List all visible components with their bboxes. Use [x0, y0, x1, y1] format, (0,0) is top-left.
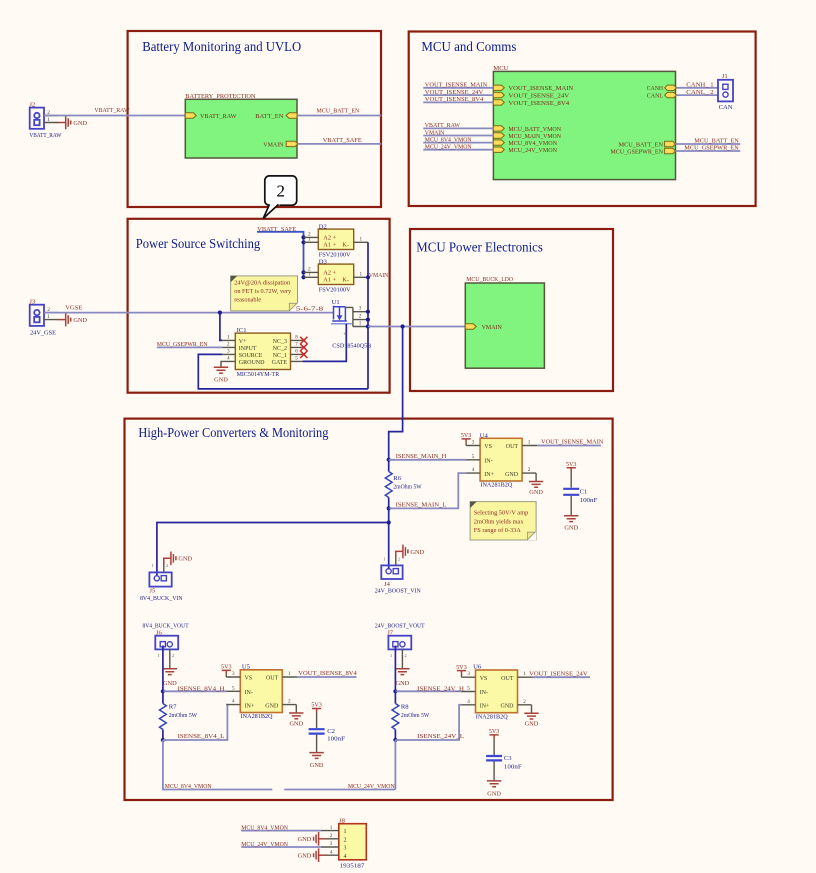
wire IC1 SOURCE loop: [198, 354, 368, 389]
svg-text:ISENSE_24V_H: ISENSE_24V_H: [417, 685, 464, 692]
svg-text:MCU Power Electronics: MCU Power Electronics: [416, 240, 543, 255]
svg-text:U6: U6: [473, 664, 482, 671]
svg-text:MCU_BATT_EN: MCU_BATT_EN: [619, 141, 664, 148]
svg-text:VBATT_SAFE: VBATT_SAFE: [323, 137, 362, 144]
svg-text:2: 2: [227, 342, 230, 348]
svg-text:1935187: 1935187: [340, 863, 366, 870]
wire VMAIN to MCU Power Electronics: [368, 326, 465, 328]
sheet entry MCU_MAIN_VMON: [493, 133, 561, 140]
resistor R8 2mOhm 5W: [392, 691, 430, 740]
svg-text:24V_BOOST_VIN: 24V_BOOST_VIN: [375, 588, 421, 595]
sheet entry MCU_BATT_VMON: [493, 126, 561, 133]
wire CANL_2: [676, 89, 718, 96]
region box Battery Monitoring and UVLO: [128, 31, 381, 207]
svg-text:VBATT_RAW: VBATT_RAW: [200, 113, 237, 120]
svg-text:3: 3: [359, 306, 362, 312]
svg-text:5V3: 5V3: [566, 461, 577, 468]
svg-text:GATE: GATE: [272, 360, 288, 366]
node junctions on VBATT_SAFE vertical: [301, 235, 305, 279]
resistor R7 2mOhm 5W: [160, 691, 198, 740]
wire MCU_8V4_VMON to MCU: [423, 136, 493, 143]
svg-text:4: 4: [330, 849, 333, 855]
connector J6 8V4_BUCK_VOUT: [143, 623, 189, 650]
ground GND at J8 pin4: [298, 848, 326, 862]
svg-text:NC_2: NC_2: [273, 346, 287, 352]
svg-text:5: 5: [295, 356, 298, 362]
svg-text:NC_1: NC_1: [273, 353, 287, 359]
resistor R6 2mOhm 5W: [385, 467, 422, 509]
svg-text:MCU_8V4_VMON: MCU_8V4_VMON: [241, 825, 288, 832]
svg-text:2mOhm 5W: 2mOhm 5W: [393, 483, 422, 490]
svg-text:FS range of 0-33A: FS range of 0-33A: [474, 527, 521, 534]
wire rail down to J4 and branch J5: [157, 508, 391, 576]
wire ISENSE_8V4_H to U5 IN-: [163, 685, 226, 692]
wire VMAIN to MCU: [423, 129, 493, 136]
svg-text:CANL: CANL: [647, 93, 663, 100]
svg-text:2mOhm 5W: 2mOhm 5W: [401, 712, 430, 719]
svg-text:GND: GND: [396, 680, 410, 687]
wire VOUT_ISENSE_MAIN: [423, 82, 493, 89]
svg-text:4: 4: [344, 854, 347, 860]
svg-text:MIC5014YM-TR: MIC5014YM-TR: [237, 371, 280, 378]
node junction ISENSE_24V_H: [393, 689, 397, 693]
sheet entry VOUT_ISENSE_MAIN: [493, 85, 573, 92]
capacitor C2 100nF: [309, 702, 346, 769]
svg-text:1: 1: [152, 563, 154, 568]
wire MCU_24V_VMON to J8: [241, 841, 321, 848]
wire VGSE J3 to MOSFET: [44, 305, 334, 313]
ground GND at J3 pin1: [58, 313, 88, 327]
wire MCU_24V_VMON: [284, 740, 395, 790]
capacitor C1 100nF: [563, 461, 598, 531]
svg-text:GND: GND: [214, 376, 228, 383]
wire IC1 V+ feed: [220, 313, 222, 341]
sheet entry VMAIN buck: [465, 324, 502, 331]
svg-text:7: 7: [295, 342, 298, 348]
connector J4 24V_BOOST_VIN: [375, 565, 421, 594]
svg-text:GND: GND: [487, 790, 501, 797]
svg-text:2: 2: [405, 653, 407, 658]
svg-text:BATT_EN: BATT_EN: [255, 113, 284, 120]
svg-text:C2: C2: [327, 728, 335, 735]
ground GND at J5 pin2: [164, 552, 193, 573]
connector J8 1935187: [321, 818, 366, 870]
region box High-Power Converters and Monitoring: [125, 419, 613, 800]
svg-text:MCU_GSEPWR_EN: MCU_GSEPWR_EN: [157, 341, 208, 348]
connector J2: [29, 101, 62, 139]
svg-text:MCU_BATT_VMON: MCU_BATT_VMON: [508, 126, 561, 133]
svg-text:MCU_8V4_VMON: MCU_8V4_VMON: [425, 136, 472, 143]
svg-text:8: 8: [295, 335, 298, 341]
wire IC1 GATE to MOSFET gate: [303, 324, 347, 362]
wire VOUT_ISENSE_8V4: [297, 670, 357, 677]
svg-text:2: 2: [172, 653, 174, 658]
pin numbers J5: [152, 563, 169, 568]
svg-text:GND: GND: [310, 762, 324, 769]
wire ISENSE_24V_H to U6 IN-: [395, 685, 464, 692]
wire VBATT_RAW to MCU: [423, 122, 493, 129]
wire ISENSE_MAIN_H to U4 IN-: [389, 453, 466, 460]
sheet entry VOUT_ISENSE_8V4: [493, 100, 570, 107]
svg-text:VMAIN: VMAIN: [482, 324, 502, 331]
wire MCU_BATT_EN: [297, 107, 381, 115]
svg-text:MCU_BUCK_LDO: MCU_BUCK_LDO: [466, 276, 513, 283]
wire J7 pin1 to ISENSE_24V_H: [394, 646, 396, 692]
op-amp U6 INA281B2Q: [456, 664, 539, 728]
connector J1 CAN: [718, 73, 733, 111]
sheet entry VMAIN: [263, 141, 298, 148]
svg-text:1: 1: [227, 335, 230, 341]
svg-text:R8: R8: [401, 704, 409, 711]
wire CANH_1: [676, 82, 718, 89]
svg-text:C3: C3: [504, 755, 512, 762]
wire diode cathodes to VMAIN rail: [366, 242, 389, 389]
node junction ISENSE_8V4_L: [161, 738, 165, 742]
diode D3 FSV20100V: [304, 258, 369, 293]
sheet symbol BATTERY_PROTECTION: [185, 93, 297, 158]
svg-text:BATTERY_PROTECTION: BATTERY_PROTECTION: [185, 93, 255, 100]
svg-text:D3: D3: [319, 258, 328, 265]
sheet entry VBATT_RAW: [185, 113, 237, 120]
svg-text:NC_3: NC_3: [273, 339, 287, 345]
wire ISENSE_24V_L to U6 IN+: [395, 705, 464, 740]
svg-text:R7: R7: [169, 704, 177, 711]
svg-text:MCU_BATT_EN: MCU_BATT_EN: [317, 107, 360, 114]
svg-text:VOUT_ISENSE_8V4: VOUT_ISENSE_8V4: [508, 100, 570, 107]
wire MCU_GSEPWR_EN to IC1 INPUT: [157, 341, 223, 348]
pin numbers J6: [158, 653, 175, 658]
note 24V dissipation: [231, 276, 298, 312]
svg-text:MCU_8V4_VMON: MCU_8V4_VMON: [508, 140, 557, 147]
svg-text:Battery Monitoring and UVLO: Battery Monitoring and UVLO: [142, 39, 301, 54]
wire ISENSE_MAIN_L to U4 IN+: [389, 473, 466, 508]
node junction VMAIN branch down: [401, 324, 405, 328]
svg-text:VOUT_ISENSE_24V: VOUT_ISENSE_24V: [529, 670, 588, 677]
sheet symbol MCU_BUCK_LDO: [465, 276, 544, 368]
node junctions MOSFET source rail: [366, 310, 370, 329]
svg-text:VBATT_SAFE: VBATT_SAFE: [257, 226, 296, 233]
svg-text:VOUT_ISENSE_24V: VOUT_ISENSE_24V: [425, 89, 484, 96]
node junction ISENSE_MAIN_H: [387, 458, 391, 462]
svg-text:GND: GND: [73, 317, 87, 324]
svg-text:2: 2: [344, 837, 347, 843]
svg-text:24V_BOOST_VOUT: 24V_BOOST_VOUT: [375, 623, 425, 630]
svg-text:8V4_BUCK_VIN: 8V4_BUCK_VIN: [140, 595, 183, 602]
svg-text:GND: GND: [163, 680, 177, 687]
svg-text:VOUT_ISENSE_MAIN: VOUT_ISENSE_MAIN: [508, 85, 573, 92]
svg-text:J2: J2: [29, 101, 35, 108]
ic U1 driver IC1 MIC5014YM-TR: [222, 327, 302, 378]
wire VBATT_SAFE from VMAIN: [298, 137, 382, 144]
svg-text:2: 2: [277, 182, 286, 201]
wire MCU_8V4_VMON to J8: [241, 825, 321, 832]
no-connect X pin8: [300, 337, 307, 344]
sheet entry CANH: [647, 85, 677, 92]
svg-text:24V@20A dissipation: 24V@20A dissipation: [234, 280, 291, 287]
svg-text:MCU_24V_VMON: MCU_24V_VMON: [241, 841, 288, 848]
svg-text:ISENSE_MAIN_L: ISENSE_MAIN_L: [396, 501, 447, 508]
sheet entry VOUT_ISENSE_24V: [493, 92, 569, 99]
svg-text:MCU_MAIN_VMON: MCU_MAIN_VMON: [508, 133, 561, 140]
wire ISENSE_8V4_L to U5 IN+: [163, 705, 228, 741]
wire VOUT_ISENSE_24V: [423, 89, 493, 96]
svg-text:1: 1: [359, 320, 362, 326]
wire VBATT_RAW J2 to battery sheet: [44, 107, 185, 116]
svg-text:1: 1: [390, 653, 392, 658]
svg-text:GND: GND: [73, 120, 87, 127]
connector J3: [29, 298, 58, 336]
note selecting 50V/V amp: [470, 502, 536, 541]
svg-text:MCU_8V4_VMON: MCU_8V4_VMON: [165, 783, 212, 790]
svg-text:ISENSE_MAIN_H: ISENSE_MAIN_H: [396, 453, 447, 460]
svg-text:MCU_BATT_EN: MCU_BATT_EN: [694, 138, 739, 145]
sheet entry BATT_EN: [255, 113, 297, 120]
svg-text:1: 1: [344, 829, 347, 835]
svg-text:J3: J3: [29, 298, 36, 305]
svg-text:CAN: CAN: [719, 104, 733, 111]
svg-text:VOUT_ISENSE_MAIN: VOUT_ISENSE_MAIN: [541, 439, 604, 446]
svg-text:1: 1: [384, 557, 386, 562]
svg-text:5-6-7-8: 5-6-7-8: [296, 306, 324, 313]
pin numbers J7: [390, 653, 407, 658]
svg-text:J8: J8: [339, 818, 346, 825]
svg-text:2: 2: [359, 314, 362, 320]
sheet entry MCU_24V_VMON: [493, 147, 557, 154]
svg-text:VOUT_ISENSE_8V4: VOUT_ISENSE_8V4: [425, 96, 484, 103]
no-connect X pin6: [300, 351, 307, 358]
connector J7 24V_BOOST_VOUT: [375, 623, 425, 650]
svg-text:Selecting 50V/V amp: Selecting 50V/V amp: [474, 510, 528, 517]
node junction ISENSE_8V4_H: [161, 689, 165, 693]
svg-text:FSV20100V: FSV20100V: [319, 286, 351, 293]
wire VMAIN down to converters: [389, 327, 403, 467]
ground GND at IC1 pin4: [214, 361, 228, 383]
wire MCU_24V_VMON to MCU: [423, 144, 493, 151]
svg-text:VMAIN: VMAIN: [263, 141, 283, 148]
svg-text:High-Power Converters & Monito: High-Power Converters & Monitoring: [138, 425, 328, 440]
svg-text:Power Source Switching: Power Source Switching: [136, 236, 261, 251]
svg-text:MCU and Comms: MCU and Comms: [421, 39, 516, 54]
svg-text:VOUT_ISENSE_8V4: VOUT_ISENSE_8V4: [298, 670, 357, 677]
svg-text:VBATT_RAW: VBATT_RAW: [425, 122, 461, 129]
ground GND at J7 pin2: [395, 649, 409, 687]
svg-text:3: 3: [344, 846, 347, 852]
svg-text:MCU_GSEPWR_EN: MCU_GSEPWR_EN: [610, 148, 663, 155]
wire VOUT_ISENSE_MAIN: [537, 439, 604, 446]
ground GND at J8 pin2: [298, 832, 326, 846]
callout balloon 2: [263, 176, 296, 219]
svg-text:4: 4: [227, 356, 230, 362]
svg-text:CSD18540Q5B: CSD18540Q5B: [332, 343, 372, 350]
svg-text:GROUND: GROUND: [239, 360, 265, 366]
svg-text:100nF: 100nF: [327, 736, 345, 743]
svg-text:2: 2: [330, 833, 333, 839]
region box Power Source Switching: [128, 219, 390, 393]
svg-text:VOUT_ISENSE_MAIN: VOUT_ISENSE_MAIN: [425, 82, 488, 89]
svg-text:GND: GND: [564, 524, 578, 531]
svg-text:J1: J1: [722, 73, 728, 80]
wire J6 pin1 to ISENSE_8V4_H: [162, 646, 164, 692]
transistor U1 CSD18540Q5B: [296, 299, 372, 350]
svg-text:VMAIN: VMAIN: [369, 272, 389, 279]
sheet entry MCU_GSEPWR_EN out: [610, 148, 675, 155]
svg-text:VMAIN: VMAIN: [425, 129, 445, 136]
svg-text:1: 1: [330, 825, 333, 831]
svg-text:VGSE: VGSE: [65, 305, 82, 312]
svg-text:CANH_ 1: CANH_ 1: [686, 82, 713, 89]
svg-text:MCU_24V_VMON: MCU_24V_VMON: [348, 783, 395, 790]
svg-text:8V4_BUCK_VOUT: 8V4_BUCK_VOUT: [143, 623, 189, 630]
sheet symbol MCU: [493, 65, 675, 179]
wire VOUT_ISENSE_24V: [529, 670, 590, 677]
svg-text:24V_GSE: 24V_GSE: [30, 329, 56, 336]
sheet entry CANL: [647, 92, 677, 99]
svg-text:U4: U4: [480, 432, 489, 439]
svg-text:100nF: 100nF: [580, 497, 598, 504]
capacitor C3 100nF: [486, 728, 522, 797]
svg-text:SOURCE: SOURCE: [239, 353, 263, 359]
svg-text:MCU_GSEPWR_EN: MCU_GSEPWR_EN: [684, 145, 739, 152]
svg-text:2mOhm 5W: 2mOhm 5W: [169, 712, 198, 719]
op-amp U4 INA281B2Q: [461, 432, 544, 496]
svg-text:MCU_24V_VMON: MCU_24V_VMON: [508, 147, 557, 154]
svg-text:INPUT: INPUT: [239, 346, 257, 352]
svg-text:CANL_ 2: CANL_ 2: [686, 89, 713, 96]
svg-text:3: 3: [330, 841, 333, 847]
svg-text:reasonable: reasonable: [234, 296, 261, 303]
svg-text:2: 2: [398, 557, 400, 562]
region box MCU Power Electronics: [410, 229, 613, 391]
svg-text:100nF: 100nF: [504, 763, 522, 770]
node junction ISENSE_24V_L: [393, 738, 397, 742]
wire MCU_GSEPWR_EN out: [676, 145, 741, 152]
region box MCU and Comms: [409, 32, 756, 207]
svg-text:2mOhm yields max: 2mOhm yields max: [474, 518, 525, 525]
svg-text:ISENSE_8V4_L: ISENSE_8V4_L: [178, 733, 225, 740]
wire VBATT_SAFE into diodes: [257, 226, 304, 278]
svg-text:6: 6: [295, 349, 298, 355]
svg-text:C1: C1: [580, 488, 588, 495]
svg-text:GND: GND: [298, 853, 312, 860]
svg-text:3: 3: [227, 349, 230, 355]
no-connect X pin7: [300, 344, 307, 351]
svg-text:MCU: MCU: [493, 65, 508, 72]
sheet entry MCU_BATT_EN out: [619, 141, 676, 148]
svg-text:2: 2: [166, 563, 168, 568]
svg-text:GND: GND: [410, 549, 424, 556]
pin numbers J4: [384, 557, 401, 562]
svg-text:on FET is 0.72W, very: on FET is 0.72W, very: [234, 288, 292, 295]
svg-text:5V3: 5V3: [489, 728, 500, 735]
node junction VGSE to IC1 V+: [218, 311, 222, 315]
svg-text:IC1: IC1: [237, 327, 247, 334]
svg-text:U5: U5: [242, 663, 251, 670]
svg-text:J5: J5: [149, 588, 156, 595]
svg-text:VOUT_ISENSE_24V: VOUT_ISENSE_24V: [508, 93, 569, 100]
svg-text:V+: V+: [239, 339, 247, 345]
ground GND at J6 pin2: [163, 649, 177, 687]
wire MCU_8V4_VMON: [163, 740, 272, 790]
ground GND at J4 pin2: [396, 545, 425, 566]
node junction ISENSE_MAIN_L: [387, 506, 391, 510]
svg-text:R6: R6: [393, 475, 401, 482]
svg-text:ISENSE_24V_L: ISENSE_24V_L: [417, 733, 464, 740]
svg-text:ISENSE_8V4_H: ISENSE_8V4_H: [178, 685, 225, 692]
connector J5 8V4_BUCK_VIN: [140, 572, 183, 602]
svg-text:5V3: 5V3: [311, 702, 322, 709]
svg-text:MCU_24V_VMON: MCU_24V_VMON: [425, 144, 472, 151]
wire VOUT_ISENSE_8V4: [423, 96, 493, 103]
svg-text:U1: U1: [332, 299, 340, 306]
svg-text:1: 1: [158, 653, 160, 658]
svg-text:VBATT_RAW: VBATT_RAW: [29, 132, 62, 139]
wire MCU_BATT_EN out: [676, 138, 741, 145]
svg-text:D2: D2: [319, 223, 327, 230]
svg-text:GND: GND: [178, 556, 192, 563]
op-amp U5 INA281B2Q: [221, 663, 304, 727]
sheet entry MCU_8V4_VMON: [493, 140, 557, 147]
diode D2 FSV20100V: [304, 223, 369, 258]
svg-text:VBATT_RAW: VBATT_RAW: [94, 107, 130, 114]
svg-text:CANH: CANH: [647, 85, 663, 92]
svg-text:GND: GND: [298, 836, 312, 843]
ground GND at J2 pin1: [58, 116, 88, 130]
